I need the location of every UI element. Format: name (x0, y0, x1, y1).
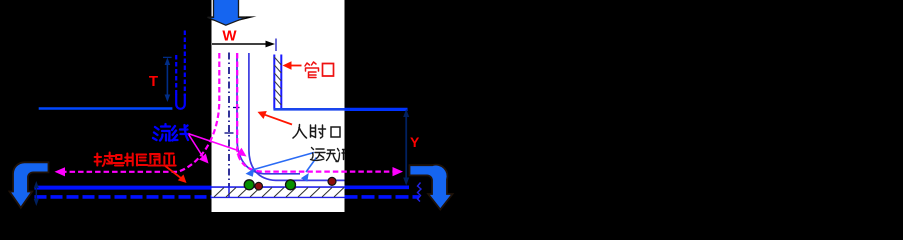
label 运动 (trajectory, black, clipped) (311, 148, 345, 162)
plate break squiggle (418, 183, 422, 202)
tick on inner jet line (233, 107, 240, 109)
Y dimension arrow (403, 109, 409, 186)
streamline label pointer 2 (188, 134, 247, 157)
right trajectory arrowhead (393, 167, 404, 176)
left tube outer wall (dashed blue) (175, 55, 177, 96)
big elbow arrow left (10, 162, 49, 208)
long horizontal tube line (left, over black) (39, 107, 173, 110)
blue inlet flow arrow (top) (208, 0, 246, 25)
centerline tick (225, 132, 234, 134)
W dimension line (212, 43, 267, 45)
plate bottom edge (212, 196, 345, 198)
red pointer to nozzle mouth (283, 61, 302, 69)
nozzle exit line (white panel part) (274, 108, 345, 111)
black arrow shadow wing (197, 16, 257, 23)
red pointer to injection port (258, 111, 293, 125)
magenta particle trajectory right (237, 53, 392, 172)
T dimension arrow (163, 57, 172, 102)
plate thickness dimension arrow (left) (34, 181, 39, 206)
left tube inner wall (dashed blue) (184, 31, 186, 97)
jet centerline (dash-dot) (228, 53, 230, 187)
svg-text:W: W (222, 28, 237, 45)
svg-text:T: T (149, 73, 158, 90)
label 管口 (nozzle mouth, red) (305, 62, 334, 78)
tube U-bend bottom (176, 94, 185, 109)
trajectory label pointer 2 (blue) (301, 158, 317, 182)
left trajectory arrowhead (55, 167, 66, 176)
W end tick (275, 39, 277, 52)
plate hatching (214, 188, 344, 198)
particle green 1 (244, 180, 254, 190)
centerline segment through plate (228, 187, 230, 198)
impaction plate (white panel part): top edge (212, 186, 345, 188)
plate right extension line 1 (345, 186, 410, 190)
nozzle exit line (over black, thicker) (345, 108, 408, 111)
label 流线 (streamline, blue) (153, 124, 188, 141)
blue streamline B (249, 53, 345, 180)
white figure panel (212, 0, 345, 212)
particle dark red 1 (255, 182, 263, 190)
plate left extension line 1 (35, 186, 212, 190)
plate left extension line 2 (dashed) (35, 195, 212, 199)
magenta particle trajectory left (65, 53, 220, 172)
right nozzle wall (hatched) (274, 55, 281, 110)
svg-text:Y: Y (410, 134, 420, 150)
particle dark red 2 (328, 177, 336, 185)
trajectory label pointer 1 (blue) (246, 153, 315, 177)
label 撞击器底盘 (impactor base, red) (95, 153, 176, 167)
blue streamline A (237, 53, 300, 174)
particle green 2 (286, 180, 296, 190)
streamline label pointer 1 (188, 134, 209, 164)
plate right extension line 2 (dashed) (345, 195, 420, 199)
big elbow arrow right (410, 165, 453, 210)
label 入射口 (injection port, black) (293, 125, 340, 139)
red pointer to impactor plate (164, 165, 187, 183)
